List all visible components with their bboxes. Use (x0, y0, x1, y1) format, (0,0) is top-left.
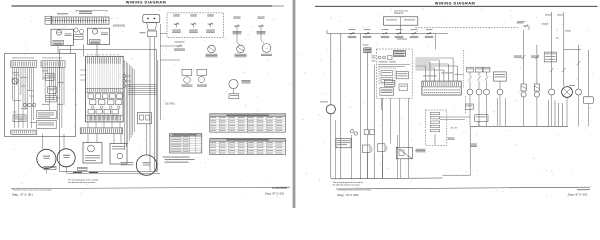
svg-text:the affected machine versions.: the affected machine versions. (333, 184, 361, 187)
svg-text:Diag. .97.3: 002: Diag. .97.3: 002 (337, 193, 359, 197)
svg-text:Diag -97.3- 001: Diag -97.3- 001 (265, 192, 285, 196)
svg-text:AT 24V: AT 24V (451, 126, 458, 129)
svg-text:the affected machine versions.: the affected machine versions. (68, 181, 96, 184)
svg-text:* Standard terminal connection: * Standard terminal connections for all … (12, 189, 52, 192)
svg-text:24V-27V: 24V-27V (394, 12, 404, 15)
svg-text:WIRING DIAGRAM: WIRING DIAGRAM (435, 1, 475, 6)
svg-text:WIRING DIAGRAM: WIRING DIAGRAM (126, 0, 166, 5)
svg-text:GS 9761: GS 9761 (165, 102, 176, 106)
svg-text:* Standard terminal connection: * Standard terminal connections for wiri… (337, 188, 370, 191)
svg-text:Diag. .97.3: 001: Diag. .97.3: 001 (12, 193, 34, 197)
svg-text:Diag -97.3- 002: Diag -97.3- 002 (568, 192, 588, 196)
